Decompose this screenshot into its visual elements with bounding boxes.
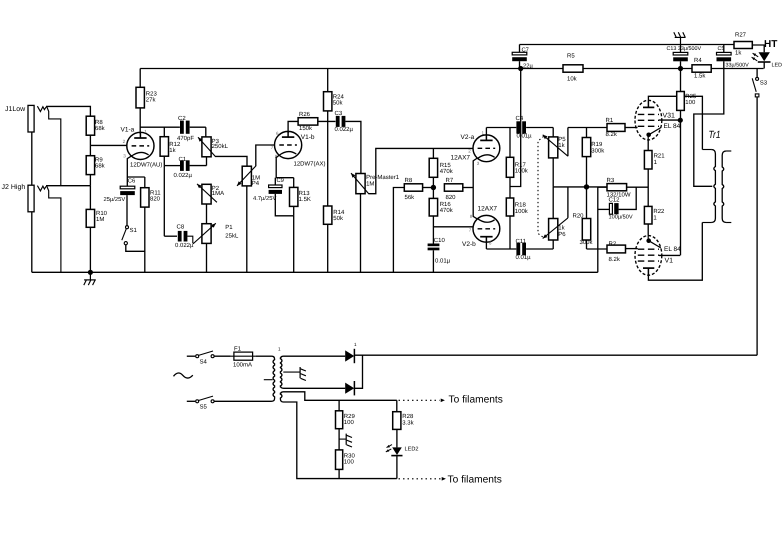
svg-text:C12: C12 xyxy=(609,197,621,204)
wire B+ feed down to R17/R18 xyxy=(510,69,521,187)
svg-text:100: 100 xyxy=(344,459,355,466)
svg-text:3: 3 xyxy=(123,153,126,158)
wire V1-a plate node xyxy=(140,126,205,128)
svg-text:1M: 1M xyxy=(96,216,104,223)
resistor R12 xyxy=(160,137,181,157)
wire filament top lead xyxy=(283,392,397,401)
resistor R22 xyxy=(644,206,665,224)
svg-text:33µ/500V: 33µ/500V xyxy=(726,62,750,68)
jack J2 High xyxy=(2,183,47,212)
wire C9 bottom xyxy=(275,194,293,216)
LED2 xyxy=(386,445,419,456)
wire R7 to cathodes xyxy=(463,187,473,189)
junction PI tail node xyxy=(431,185,436,190)
resistor R10 xyxy=(86,209,107,227)
wire C8 to P1 wiper xyxy=(187,236,192,243)
svg-text:R16: R16 xyxy=(440,201,452,208)
wire R15 stems xyxy=(432,148,434,187)
svg-text:12AX7: 12AX7 xyxy=(451,154,471,161)
svg-text:F1: F1 xyxy=(234,346,242,353)
pentode V3 xyxy=(635,100,662,140)
svg-text:1M: 1M xyxy=(366,180,374,187)
wire R2 to V4 grid xyxy=(626,248,638,250)
svg-text:R7: R7 xyxy=(446,177,454,184)
svg-text:C4: C4 xyxy=(516,115,524,122)
svg-text:C2: C2 xyxy=(178,115,186,122)
wire B+ to R23 xyxy=(139,69,141,88)
svg-text:1k: 1k xyxy=(735,50,742,57)
svg-text:1.5K: 1.5K xyxy=(299,196,311,203)
svg-text:R5: R5 xyxy=(567,53,575,60)
wire B+ rail segment 3 xyxy=(711,68,763,70)
jack J1 Low xyxy=(5,105,46,132)
capacitor C6 xyxy=(104,177,136,203)
diode D2 xyxy=(345,381,354,395)
wire C6 to S1 xyxy=(126,195,128,226)
capacitor C12 xyxy=(609,197,633,221)
svg-text:12AX7: 12AX7 xyxy=(478,205,498,212)
wire B+ to R25 xyxy=(680,69,682,92)
wire plate line to R2 xyxy=(587,248,608,250)
wire R18 bottom to plate line xyxy=(509,216,511,249)
wire P5/P6 junction rail xyxy=(553,158,607,219)
wire cathode tee to R11 xyxy=(127,176,145,178)
transformer Tr1 (output) xyxy=(702,129,731,223)
resistor R17 xyxy=(506,157,529,177)
svg-text:R18: R18 xyxy=(515,202,527,209)
dotted gang line P5-P6 xyxy=(538,137,544,238)
svg-text:68k: 68k xyxy=(95,125,106,132)
svg-text:LED2: LED2 xyxy=(405,447,419,453)
svg-text:C1: C1 xyxy=(179,156,187,163)
wire R21 to R22 xyxy=(647,169,649,206)
wire R27 to LED xyxy=(752,45,764,52)
wire R3 right to cathode node xyxy=(627,186,649,188)
svg-text:R8: R8 xyxy=(405,177,413,184)
wire B+ to OT center tap xyxy=(694,69,724,187)
wire Pre-Master wiper to V2-a grid xyxy=(369,148,473,193)
wire B+ rail segment 2 xyxy=(583,68,692,70)
svg-text:R22: R22 xyxy=(653,208,665,215)
wire HT secondary top to D1 xyxy=(283,355,345,357)
wire V3 plate (behind R25) to OT xyxy=(685,96,703,149)
resistor R25 xyxy=(677,92,697,111)
svg-text:0.01µ: 0.01µ xyxy=(516,254,532,261)
wire V1-b plate to R26 xyxy=(288,121,298,133)
svg-text:R9: R9 xyxy=(95,157,103,164)
wire R3 left / ground riser xyxy=(598,187,610,272)
svg-text:R8: R8 xyxy=(95,119,103,126)
resistor R7 xyxy=(444,177,462,201)
svg-text:R27: R27 xyxy=(735,32,747,39)
potentiometer P4 xyxy=(237,166,260,187)
svg-text:250kL: 250kL xyxy=(212,143,229,150)
wire R12 top stem xyxy=(163,127,165,137)
wire P3 wiper to P4 xyxy=(216,156,248,166)
svg-text:1: 1 xyxy=(278,347,281,352)
capacitor C2 xyxy=(177,115,194,142)
svg-text:10k: 10k xyxy=(567,76,578,83)
wire filament bottom lead xyxy=(283,402,397,479)
svg-text:6: 6 xyxy=(276,131,279,136)
svg-text:R24: R24 xyxy=(333,93,345,100)
switch S5 xyxy=(196,396,214,411)
svg-text:LED: LED xyxy=(772,63,783,69)
svg-text:56k: 56k xyxy=(405,194,416,201)
ground (main) xyxy=(84,272,96,285)
resistor R11 xyxy=(141,188,162,207)
resistor R21 xyxy=(644,151,665,170)
svg-text:C3: C3 xyxy=(335,110,343,117)
wire J2 shorting contact to ground xyxy=(47,186,61,272)
wire P4 to ground xyxy=(246,186,248,272)
svg-text:8.2k: 8.2k xyxy=(609,256,621,263)
svg-text:1: 1 xyxy=(144,129,147,134)
pentode V4 xyxy=(635,236,662,276)
wire jack sleeves chain xyxy=(31,132,33,272)
switch S3 xyxy=(752,69,768,356)
svg-text:P1: P1 xyxy=(225,224,233,231)
wire S4 to F1 xyxy=(214,355,230,357)
svg-text:25µ/25V: 25µ/25V xyxy=(104,196,126,203)
transformer T1 (power) xyxy=(272,347,284,402)
svg-text:1MA: 1MA xyxy=(212,190,224,197)
svg-text:R2: R2 xyxy=(609,240,617,247)
svg-text:470k: 470k xyxy=(440,168,454,175)
wire P5 output line to R1 xyxy=(568,127,607,129)
resistor R18 xyxy=(506,198,529,216)
ground (top, at C13) xyxy=(674,32,686,44)
wire V4 screen xyxy=(659,254,680,256)
wire R9 stems xyxy=(89,145,91,185)
wire R8-PI left to ground xyxy=(393,188,404,273)
svg-text:To filaments: To filaments xyxy=(449,395,503,406)
svg-text:1: 1 xyxy=(482,130,485,135)
wire R8 to grid node xyxy=(89,135,91,145)
svg-text:R11: R11 xyxy=(150,190,161,197)
svg-text:50k: 50k xyxy=(333,215,344,222)
svg-text:100k: 100k xyxy=(515,168,529,175)
wire V2-b plate line through C11 xyxy=(486,240,553,249)
wire R22 to V4 cathode xyxy=(647,224,649,236)
svg-text:R14: R14 xyxy=(333,209,345,216)
wire R17 top stem xyxy=(509,128,511,158)
svg-text:R13: R13 xyxy=(299,190,311,197)
wire F1 to transformer xyxy=(256,355,272,357)
svg-text:R26: R26 xyxy=(299,111,311,118)
svg-text:Tr1: Tr1 xyxy=(709,129,721,141)
triode V1-b xyxy=(275,131,302,158)
wire plate line to P5 xyxy=(486,128,553,137)
wire P6 wiper to rail xyxy=(567,187,569,218)
wire R19 top stem xyxy=(586,128,588,138)
svg-text:820: 820 xyxy=(150,196,161,203)
wire B+ rail segment 1 xyxy=(140,68,563,70)
resistor R3 xyxy=(607,177,631,199)
wire V2-a plate to C4 line xyxy=(485,128,487,135)
wire R11 stems to ground xyxy=(144,177,146,272)
potentiometer P1 xyxy=(193,223,239,244)
svg-text:100: 100 xyxy=(685,99,696,106)
potentiometer P5 xyxy=(543,135,568,158)
svg-text:2: 2 xyxy=(123,139,126,144)
wire R30 to bottom lead xyxy=(338,469,340,478)
svg-text:12DW7(AX): 12DW7(AX) xyxy=(294,161,326,168)
wire HT to standby switch xyxy=(354,354,757,356)
potentiometer P2 xyxy=(197,184,224,204)
svg-text:J1Low: J1Low xyxy=(5,106,26,113)
resistor R9 xyxy=(86,156,105,175)
svg-text:V31: V31 xyxy=(663,112,676,119)
svg-text:0.01µ: 0.01µ xyxy=(435,257,451,264)
resistor R1 xyxy=(606,117,626,138)
wire J2 tip to node xyxy=(46,185,90,187)
svg-text:0.022µ: 0.022µ xyxy=(175,242,194,249)
resistor R24 xyxy=(324,92,345,111)
wire mains lead top xyxy=(187,355,196,357)
wire C12 right hook xyxy=(619,187,637,209)
junction B+ at C7 xyxy=(518,66,523,71)
svg-text:7: 7 xyxy=(469,228,472,233)
svg-text:25kL: 25kL xyxy=(225,233,239,240)
svg-text:R30: R30 xyxy=(344,452,356,459)
svg-text:470k: 470k xyxy=(440,207,454,214)
svg-text:P6: P6 xyxy=(558,231,566,238)
wire R24 stems xyxy=(327,69,329,122)
svg-text:EL 84: EL 84 xyxy=(664,246,681,253)
wire R20 stems xyxy=(586,187,588,249)
ground (PT center tap) xyxy=(300,367,306,381)
svg-text:68k: 68k xyxy=(95,163,106,170)
svg-text:12DW7(AU): 12DW7(AU) xyxy=(130,161,162,168)
svg-text:300k: 300k xyxy=(591,147,605,154)
LED (HT indicator) xyxy=(752,52,782,68)
svg-text:100: 100 xyxy=(344,419,355,426)
svg-text:100k: 100k xyxy=(515,208,529,215)
svg-text:V1: V1 xyxy=(665,258,674,265)
wire R14 to ground xyxy=(327,224,329,272)
svg-text:EL 84: EL 84 xyxy=(664,123,681,130)
capacitor C11 xyxy=(516,238,532,261)
svg-text:R3: R3 xyxy=(607,177,615,184)
wire R28 top stem xyxy=(396,400,398,411)
wire R26 to node xyxy=(318,120,336,122)
wire R28 to LED2 xyxy=(396,429,398,447)
wire primary tap stub xyxy=(264,379,273,381)
junction R19/R20 xyxy=(584,184,589,189)
wire dotted to filaments (bottom) xyxy=(399,478,441,480)
wire J1 tip to R8 xyxy=(46,106,90,116)
wire Pre-Master bottom to ground xyxy=(360,194,362,273)
capacitor C8 xyxy=(175,224,194,249)
svg-text:R17: R17 xyxy=(515,162,527,169)
junction screens xyxy=(678,118,683,123)
wire J2 node to R10 and ground xyxy=(89,186,91,273)
triode V2-a xyxy=(473,135,500,162)
resistor R4 xyxy=(692,57,711,80)
junction ground at R10 xyxy=(88,270,93,275)
svg-text:R10: R10 xyxy=(96,210,108,217)
svg-text:Pre-Master1: Pre-Master1 xyxy=(366,174,400,181)
capacitor C3 xyxy=(335,110,354,133)
svg-text:8.2k: 8.2k xyxy=(606,131,618,138)
wire V1-b cathode xyxy=(276,155,294,178)
svg-text:R28: R28 xyxy=(402,413,414,420)
wire J1 shorting contact xyxy=(47,107,61,186)
svg-text:1k: 1k xyxy=(558,225,565,232)
svg-text:150k: 150k xyxy=(299,125,313,132)
svg-text:3.3k: 3.3k xyxy=(402,419,414,426)
svg-text:S4: S4 xyxy=(200,359,208,366)
svg-text:27k: 27k xyxy=(146,97,157,104)
wire S1 to R11 bottom xyxy=(126,245,145,252)
triode V2-b xyxy=(473,215,500,242)
svg-text:R21: R21 xyxy=(654,153,666,160)
svg-text:4.7µ/25V: 4.7µ/25V xyxy=(253,195,276,202)
svg-text:S3: S3 xyxy=(760,80,768,87)
wire R24 node down to R14 xyxy=(327,121,329,206)
svg-text:50k: 50k xyxy=(333,100,344,107)
wire mains lead bottom xyxy=(187,400,196,402)
resistor R2 xyxy=(607,240,626,263)
svg-text:V2-b: V2-b xyxy=(462,241,476,248)
wire R1 to V3 grid xyxy=(625,127,638,129)
resistor R8 xyxy=(86,116,105,135)
capacitor C5 xyxy=(717,45,750,69)
resistor R30 xyxy=(336,450,356,470)
svg-text:R15: R15 xyxy=(440,162,452,169)
switch S1 xyxy=(122,226,138,245)
svg-text:To filaments: To filaments xyxy=(448,474,502,485)
svg-text:R20: R20 xyxy=(573,212,585,219)
potentiometer P3 xyxy=(198,137,229,157)
potentiometer P6 xyxy=(543,218,568,240)
svg-text:3: 3 xyxy=(477,161,480,166)
wire V2-b grid tap xyxy=(433,226,472,228)
wire R8-PI right to node xyxy=(423,187,434,189)
junction B+ at C13 xyxy=(678,66,683,71)
wire filter-cap ground bus (top) xyxy=(520,44,735,46)
svg-text:R12: R12 xyxy=(169,141,181,148)
wire P1 to ground xyxy=(206,243,208,272)
wire V4 plate to OT primary bottom xyxy=(648,223,702,281)
capacitor C7 xyxy=(512,45,533,70)
wire HT secondary bottom to D2 xyxy=(283,387,345,389)
svg-text:1k: 1k xyxy=(558,142,565,149)
resistor R20 xyxy=(582,219,590,241)
resistor R15 xyxy=(429,158,454,177)
svg-text:1k: 1k xyxy=(169,147,176,154)
resistor R23 xyxy=(136,87,157,108)
svg-text:S5: S5 xyxy=(200,404,208,411)
wire S5 to transformer xyxy=(214,400,272,402)
capacitor C13 xyxy=(667,45,702,69)
svg-text:V1-b: V1-b xyxy=(301,134,315,141)
wire R25 to screens xyxy=(680,110,682,255)
resistor R14 xyxy=(324,206,345,224)
wire R17-R18 mid xyxy=(509,177,511,198)
svg-text:C6: C6 xyxy=(128,177,135,184)
resistor R8 (PI) xyxy=(404,177,422,201)
resistor R26 xyxy=(298,111,318,132)
svg-text:C8: C8 xyxy=(177,224,185,231)
svg-text:R1: R1 xyxy=(606,117,614,124)
svg-text:6: 6 xyxy=(489,241,492,246)
svg-text:7: 7 xyxy=(271,145,274,150)
resistor R5 xyxy=(563,53,583,83)
capacitor C10 xyxy=(428,237,451,264)
wire R16 stems xyxy=(432,188,434,244)
wire P4 wiper to V1-b grid xyxy=(256,145,275,166)
svg-text:C7: C7 xyxy=(522,47,529,54)
wire LED2 to bottom lead xyxy=(396,456,398,479)
svg-text:100mA: 100mA xyxy=(233,361,252,368)
potentiometer Pre-Master1 xyxy=(351,173,400,194)
svg-text:0.022µ: 0.022µ xyxy=(335,126,354,133)
svg-text:0.01µ: 0.01µ xyxy=(517,133,533,140)
svg-text:C5: C5 xyxy=(718,46,725,52)
svg-text:R19: R19 xyxy=(591,141,603,148)
wire C10 to ground xyxy=(432,250,434,272)
svg-text:C11: C11 xyxy=(516,238,527,245)
svg-text:R23: R23 xyxy=(146,91,158,98)
wire rectifier output join xyxy=(354,355,362,388)
wire R29 top stem xyxy=(338,400,340,411)
svg-text:V2-a: V2-a xyxy=(461,134,475,141)
svg-text:R29: R29 xyxy=(344,413,356,420)
wire C3 to Pre-Master xyxy=(345,121,361,173)
resistor R28 xyxy=(393,412,415,430)
wire R23 to V1-a plate xyxy=(139,108,141,134)
svg-text:2: 2 xyxy=(468,148,471,153)
ground (humdinger) xyxy=(346,434,352,447)
wire ground rail (bottom of preamp) xyxy=(32,271,598,273)
capacitor C1 xyxy=(174,156,193,179)
svg-text:R4: R4 xyxy=(694,57,702,64)
diode D1 xyxy=(345,342,357,363)
wire P5 wiper up to output line xyxy=(567,128,569,157)
resistor R16 xyxy=(429,198,454,216)
svg-text:470pF: 470pF xyxy=(177,135,194,142)
svg-text:S1: S1 xyxy=(130,227,138,234)
wire dotted to filaments (top) xyxy=(399,399,440,401)
wire V2 cathodes xyxy=(473,158,477,219)
svg-text:HT: HT xyxy=(764,39,777,50)
triode V1-a xyxy=(127,132,154,159)
svg-text:C10: C10 xyxy=(434,237,446,244)
svg-text:8: 8 xyxy=(470,214,473,219)
wire V3 screen xyxy=(659,119,680,121)
resistor R13 xyxy=(290,187,311,206)
wire grid node to V1-a grid xyxy=(90,144,126,146)
svg-text:1.5k: 1.5k xyxy=(694,73,706,80)
wire R29-R30 mid with ground stub xyxy=(339,429,346,450)
capacitor C4 xyxy=(516,115,533,140)
resistor R29 xyxy=(336,411,356,429)
wire C2 to P3 xyxy=(205,127,207,137)
wire V1-a cathode xyxy=(127,156,132,177)
resistor R19 xyxy=(582,138,605,157)
svg-text:820: 820 xyxy=(446,194,457,201)
wire P3 bottom to slope node xyxy=(206,157,208,166)
resistor R27 xyxy=(734,32,752,57)
capacitor C9 xyxy=(253,177,284,202)
wire R13 stems to ground xyxy=(293,178,295,273)
svg-text:1: 1 xyxy=(354,342,357,347)
fuse F1 xyxy=(231,346,256,369)
svg-text:0.022µ: 0.022µ xyxy=(174,172,193,179)
svg-text:C13 33µ/500V: C13 33µ/500V xyxy=(667,46,702,52)
